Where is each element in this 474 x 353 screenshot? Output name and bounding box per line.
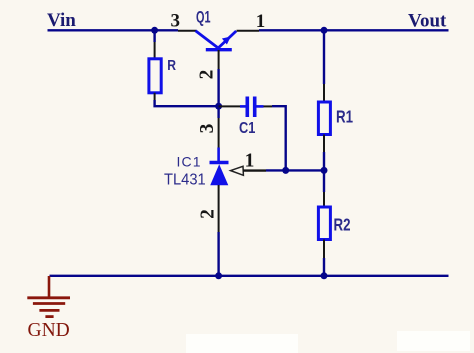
cathode lead of IC1 <box>217 148 220 163</box>
wire R bottom to base node <box>155 100 216 106</box>
svg-text:3: 3 <box>171 10 181 31</box>
pin 3 lead of Q1 <box>178 30 197 32</box>
wire Vout rail <box>259 29 449 31</box>
wire Vout rail to R1 <box>323 30 325 84</box>
node G R2/ground junction <box>321 272 328 279</box>
pin 1 lead of C1 <box>219 105 241 107</box>
svg-text:R2: R2 <box>334 216 351 235</box>
svg-text:GND: GND <box>28 320 70 341</box>
resistor R1 <box>318 102 330 135</box>
resistor R2 <box>318 207 330 240</box>
capacitor C1 <box>240 97 264 118</box>
svg-text:Vin: Vin <box>47 10 76 31</box>
transistor Q1 <box>196 31 237 50</box>
pin 2 lead of C1 <box>264 105 273 107</box>
wire anode to ground rail <box>217 232 219 276</box>
svg-text:R1: R1 <box>336 108 353 127</box>
pin 3 lead of IC1 cathode <box>218 118 220 148</box>
node E R1/R2 junction <box>321 167 328 174</box>
node C base/R/C1 junction <box>215 103 222 110</box>
pin lead R2 top <box>323 192 325 207</box>
svg-text:1: 1 <box>256 11 266 32</box>
pin lead R2 bottom <box>323 240 325 259</box>
svg-text:TL431: TL431 <box>164 171 206 188</box>
wire base column <box>217 69 219 118</box>
svg-text:Vout: Vout <box>408 10 447 31</box>
svg-text:1: 1 <box>245 151 255 172</box>
wire Vin rail <box>48 29 179 31</box>
ground symbol <box>27 276 70 317</box>
svg-text:Q1: Q1 <box>196 8 211 27</box>
svg-text:2: 2 <box>197 70 218 80</box>
svg-text:R: R <box>167 57 176 73</box>
svg-text:C1: C1 <box>239 120 255 138</box>
TL431 IC1 <box>210 163 229 186</box>
pin 2 lead of Q1 base <box>218 50 220 69</box>
wire node E to R2 <box>323 170 325 192</box>
node A Vin/R junction <box>151 27 158 34</box>
pin lead R bottom <box>154 93 156 100</box>
pin lead R1 bottom <box>323 135 325 153</box>
ground rail wire <box>50 275 449 277</box>
svg-text:3: 3 <box>197 123 218 133</box>
pin 2 lead of IC1 anode <box>218 185 220 232</box>
pin 1 lead of Q1 <box>237 30 260 32</box>
wire R1 to node E <box>323 152 325 170</box>
node F anode/ground junction <box>215 272 222 279</box>
pin lead R1 top <box>323 84 325 102</box>
reference pin arrow of IC1 <box>231 166 266 175</box>
svg-text:IC1: IC1 <box>177 154 202 170</box>
wire node A to R top <box>153 30 155 42</box>
svg-text:2: 2 <box>198 209 219 219</box>
node D C1/ref junction <box>282 167 289 174</box>
pin lead R top <box>154 42 156 59</box>
node B Vout/R1 junction <box>321 27 328 34</box>
wire R2 to ground rail <box>323 258 325 276</box>
resistor R <box>149 59 161 93</box>
wire C1 to feedback node <box>272 106 286 170</box>
wire ref to divider <box>266 169 324 171</box>
